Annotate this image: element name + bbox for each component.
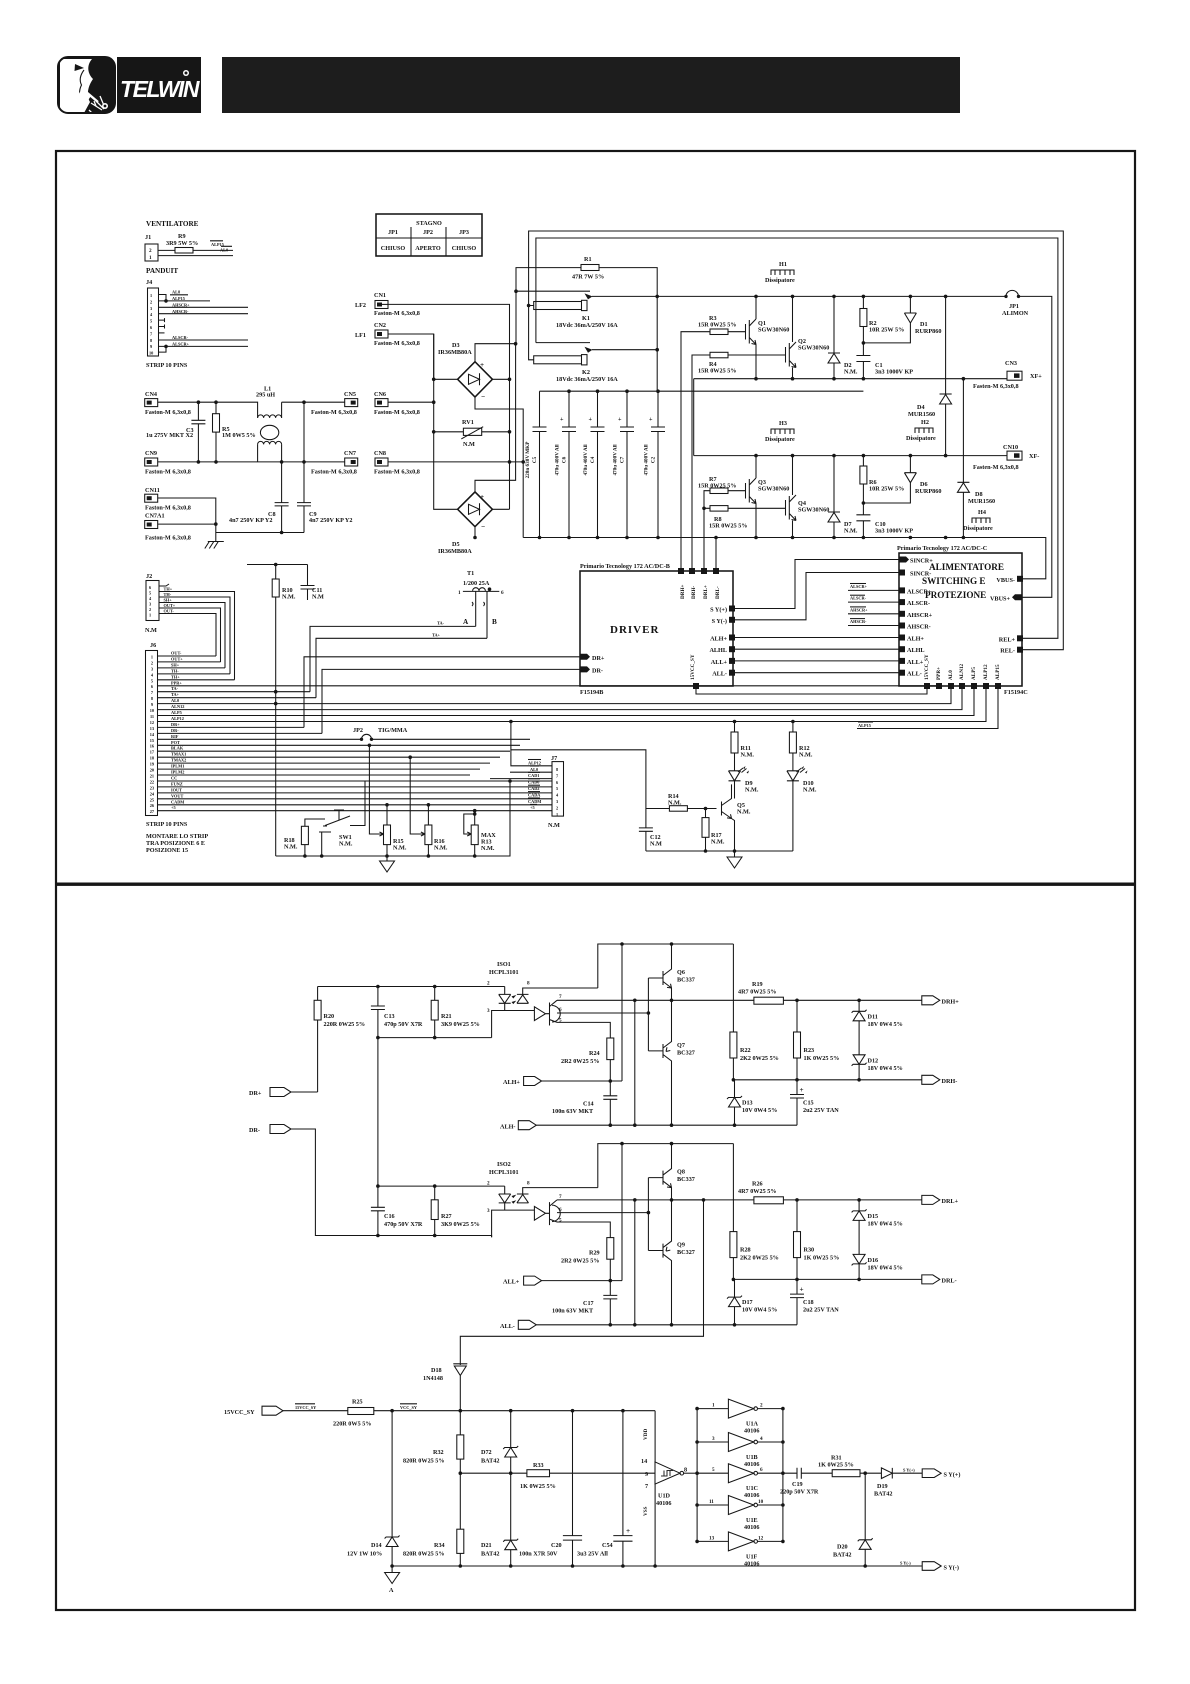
svg-text:D17: D17 <box>742 1299 753 1306</box>
section divider <box>56 883 1135 886</box>
svg-text:1: 1 <box>150 293 152 298</box>
wire J4 pin9 ALSCR+ <box>159 345 249 347</box>
svg-text:PPR+: PPR+ <box>936 667 942 680</box>
wire R4 gate riser DRH- <box>692 355 786 571</box>
jumper JP2 <box>353 727 408 741</box>
svg-text:47R 7W 5%: 47R 7W 5% <box>572 274 604 281</box>
ground triangle under Q5 <box>727 851 742 868</box>
svg-text:10: 10 <box>758 1499 764 1505</box>
svg-text:7: 7 <box>645 1483 648 1490</box>
svg-text:13: 13 <box>709 1535 715 1541</box>
resistor R4 <box>710 352 728 358</box>
wire D3 right arm <box>492 379 509 509</box>
svg-text:STAGNO: STAGNO <box>416 220 442 227</box>
svg-text:TA-: TA- <box>171 686 179 691</box>
resistor R11 <box>731 722 754 771</box>
svg-text:15VCC_SY: 15VCC_SY <box>690 654 696 680</box>
svg-text:CN6: CN6 <box>374 391 386 398</box>
svg-text:6: 6 <box>501 590 504 596</box>
svg-text:ALHL: ALHL <box>709 647 727 654</box>
svg-text:ALP15: ALP15 <box>995 664 1001 680</box>
capacitor C5 <box>525 391 547 537</box>
wire pin7 drop to ALL- <box>634 1200 636 1325</box>
svg-text:5: 5 <box>712 1467 715 1473</box>
input flag ALL- <box>500 1320 797 1330</box>
input flag ALL+ <box>503 1276 622 1285</box>
svg-text:CHIUSO: CHIUSO <box>381 245 406 252</box>
J6 pin 23 FUNZ <box>158 786 553 788</box>
svg-text:8: 8 <box>527 981 530 987</box>
resistor R30 <box>794 1200 840 1280</box>
bridge rectifier D5 <box>438 492 492 555</box>
svg-text:+: + <box>626 1527 630 1535</box>
svg-text:N.M.: N.M. <box>434 845 448 852</box>
svg-text:DRH+: DRH+ <box>942 999 960 1006</box>
zener D14 <box>347 1411 400 1566</box>
svg-text:ALSCR-: ALSCR- <box>850 596 867 601</box>
svg-text:R28: R28 <box>740 1247 751 1254</box>
svg-text:D4: D4 <box>917 404 925 411</box>
svg-text:5: 5 <box>150 319 152 324</box>
wire D3 left vertical <box>434 334 458 509</box>
svg-text:1K 0W25 5%: 1K 0W25 5% <box>804 1055 840 1062</box>
svg-text:1: 1 <box>458 590 461 596</box>
capacitor C17 <box>552 1281 617 1325</box>
svg-text:15VCC_SY: 15VCC_SY <box>295 1405 317 1410</box>
svg-text:Faston-M 6,3x0,8: Faston-M 6,3x0,8 <box>374 409 420 416</box>
capacitor C54 <box>577 1411 633 1566</box>
svg-text:10R 25W 5%: 10R 25W 5% <box>869 486 904 493</box>
logo telwin icon <box>58 57 115 117</box>
resistor R17 <box>702 809 725 852</box>
svg-text:SGW30N60: SGW30N60 <box>758 486 789 493</box>
svg-text:U1E: U1E <box>746 1517 758 1524</box>
wire loop outer (REL-) <box>529 231 1064 650</box>
lower bus (lower bridge collector / CN10) <box>694 455 1007 457</box>
diode D18 <box>423 1364 467 1411</box>
svg-text:R30: R30 <box>804 1247 815 1254</box>
resistor R19 <box>673 981 922 1004</box>
svg-text:BC337: BC337 <box>677 977 695 984</box>
svg-text:ALP5: ALP5 <box>171 710 182 715</box>
svg-text:8: 8 <box>527 1181 530 1187</box>
svg-text:BAT42: BAT42 <box>481 1458 499 1465</box>
svg-text:BC337: BC337 <box>677 1176 695 1183</box>
svg-text:N.M.: N.M. <box>481 845 495 852</box>
svg-text:4R7 0W25 5%: 4R7 0W25 5% <box>738 989 777 996</box>
svg-text:ALL+: ALL+ <box>907 659 924 666</box>
wire D3 bottom to rail <box>475 397 523 538</box>
svg-text:C19: C19 <box>792 1481 803 1488</box>
capacitor C12 <box>639 809 662 852</box>
resistor R12 <box>789 722 812 771</box>
svg-text:CN7: CN7 <box>344 450 356 457</box>
svg-text:3K9 0W25 5%: 3K9 0W25 5% <box>441 1221 480 1228</box>
svg-text:+: + <box>800 1086 804 1094</box>
diode D1 <box>862 296 942 344</box>
wire ALP15 stub to alim <box>857 689 998 729</box>
svg-text:SH+: SH+ <box>164 597 173 602</box>
zener D15 <box>852 1200 903 1255</box>
wire J4 pin4 AHSCR- <box>159 313 249 315</box>
wire SY- to SINCR- <box>735 573 899 620</box>
wire base bus Q8 Q9 <box>648 1178 663 1251</box>
wire ALP12 to R14 node <box>511 750 646 809</box>
wire R22 top riser <box>732 944 734 1032</box>
resistor R2 <box>860 296 904 343</box>
svg-text:DR+: DR+ <box>592 655 605 662</box>
svg-text:2u2 25V TAN: 2u2 25V TAN <box>803 1107 839 1114</box>
diode D4 <box>908 296 952 455</box>
J6 pin 17 BLAK <box>158 750 511 752</box>
driver top pins DRH+ DRH- DRL+ DRL- <box>678 568 721 599</box>
svg-text:Dissipatore: Dissipatore <box>963 525 993 532</box>
capacitor C13 <box>371 985 423 1038</box>
wire gate riser DRL- <box>715 538 717 572</box>
inverter bank input bus <box>696 1409 698 1542</box>
svg-text:3u3 25V All: 3u3 25V All <box>577 1551 608 1558</box>
svg-text:8: 8 <box>150 338 152 343</box>
svg-text:820R 0W25 5%: 820R 0W25 5% <box>403 1458 445 1465</box>
svg-text:STRIP 10 PINS: STRIP 10 PINS <box>146 821 188 828</box>
diode D8 <box>957 379 995 538</box>
svg-text:AL0: AL0 <box>530 767 538 772</box>
svg-text:MONTARE LO STRIP: MONTARE LO STRIP <box>146 833 208 840</box>
svg-text:2R2 0W25 5%: 2R2 0W25 5% <box>561 1058 600 1065</box>
bridge rectifier D3 <box>438 342 492 401</box>
svg-text:C14: C14 <box>583 1101 594 1108</box>
resistor R31 <box>818 1455 881 1477</box>
svg-text:C54: C54 <box>602 1542 613 1549</box>
svg-text:CN8: CN8 <box>374 450 386 457</box>
transistor Q8 <box>663 1144 695 1200</box>
jumper JP1 <box>1002 290 1029 317</box>
wire SW1 lever ground link <box>321 832 323 856</box>
svg-text:1: 1 <box>149 255 152 261</box>
svg-text:J1: J1 <box>145 234 151 241</box>
wire J2 OUT- <box>159 614 216 657</box>
svg-text:R21: R21 <box>441 1013 452 1020</box>
J6 pin 13 DR+ <box>158 726 305 728</box>
svg-text:12: 12 <box>758 1535 764 1541</box>
svg-text:JP2: JP2 <box>353 727 363 734</box>
svg-text:ALH+: ALH+ <box>503 1079 520 1086</box>
capacitor C2 <box>644 391 666 537</box>
wire C13-R21 bottom to ISO1 pin3 <box>378 1038 492 1187</box>
svg-text:VBUS+: VBUS+ <box>990 595 1011 602</box>
svg-text:IOUT: IOUT <box>171 787 182 792</box>
svg-text:D16: D16 <box>868 1257 879 1264</box>
J6 pin 24 IOUT <box>158 792 553 794</box>
zener D11 <box>852 1000 903 1055</box>
capacitor C3 <box>191 402 205 462</box>
wire D5 bottom to rail <box>474 527 476 538</box>
sheet frame <box>56 151 1135 1610</box>
ground A <box>385 1566 400 1594</box>
svg-text:TRA POSIZIONE 6 E: TRA POSIZIONE 6 E <box>146 840 205 847</box>
svg-text:+5: +5 <box>171 805 176 810</box>
wire ALL- link <box>735 672 899 674</box>
J6 pin 12 ALP12 long <box>158 689 987 722</box>
svg-text:3: 3 <box>149 602 151 607</box>
svg-text:IR36MB80A: IR36MB80A <box>438 548 472 555</box>
wire AHSCR- stub <box>848 625 899 627</box>
svg-text:−: − <box>481 523 485 531</box>
svg-text:S Y(-): S Y(-) <box>900 1561 911 1566</box>
svg-text:N.M: N.M <box>650 841 662 848</box>
J6 pin 8 TA+ <box>158 697 317 699</box>
output flag DRH- <box>922 1075 958 1085</box>
svg-text:2: 2 <box>150 299 152 304</box>
svg-text:PROTEZIONE: PROTEZIONE <box>925 590 986 600</box>
svg-text:13: 13 <box>150 726 154 731</box>
svg-text:10R 25W 5%: 10R 25W 5% <box>869 327 904 334</box>
svg-text:220p 50V X7R: 220p 50V X7R <box>780 1489 819 1496</box>
svg-text:J6: J6 <box>150 642 156 649</box>
capacitor C6 <box>555 391 577 537</box>
svg-text:220n 630V MKP: 220n 630V MKP <box>525 441 531 479</box>
svg-text:4R7 0W25 5%: 4R7 0W25 5% <box>738 1188 777 1195</box>
svg-text:ALSCR+: ALSCR+ <box>172 342 190 347</box>
svg-text:Fasten-M 6,3x0,8: Fasten-M 6,3x0,8 <box>973 464 1019 471</box>
svg-text:−: − <box>481 393 485 401</box>
wire J2 SH+ <box>159 603 225 668</box>
svg-text:1: 1 <box>149 613 151 618</box>
svg-text:MUR1560: MUR1560 <box>908 411 935 418</box>
resistor R32 <box>403 1411 464 1474</box>
svg-text:CN5: CN5 <box>344 391 356 398</box>
svg-text:JP1: JP1 <box>388 229 398 236</box>
J6 pin 6 PPR+ long <box>158 686 940 689</box>
svg-text:S Y(+): S Y(+) <box>710 607 727 614</box>
svg-text:SINCR-: SINCR- <box>910 571 931 578</box>
diode D19 <box>874 1468 905 1498</box>
wire J4 pin8 ALSCR- <box>159 339 249 341</box>
transistor Q5 <box>722 784 751 851</box>
svg-text:820R 0W25 5%: 820R 0W25 5% <box>403 1551 445 1558</box>
svg-text:VDD: VDD <box>643 1429 649 1440</box>
svg-text:CADM: CADM <box>171 799 184 804</box>
svg-text:ALL-: ALL- <box>712 671 727 678</box>
svg-text:3: 3 <box>712 1436 715 1442</box>
wire Q5 bottom line <box>646 850 793 852</box>
svg-text:1K 0W25 5%: 1K 0W25 5% <box>818 1462 854 1469</box>
svg-text:DRH-: DRH- <box>691 585 697 599</box>
resistor R22 <box>730 1032 779 1080</box>
svg-text:R26: R26 <box>752 1181 763 1188</box>
svg-text:H1: H1 <box>779 261 787 268</box>
transistor Q7 <box>663 1000 695 1125</box>
svg-text:N.M: N.M <box>312 594 324 601</box>
svg-text:AL8: AL8 <box>172 290 180 295</box>
alim bottom pins <box>924 654 1001 689</box>
svg-text:VSS: VSS <box>643 1506 649 1516</box>
wire J2 pin6 stub <box>159 584 169 586</box>
svg-text:ALIMON: ALIMON <box>1002 310 1029 317</box>
svg-text:STRIP 10 PINS: STRIP 10 PINS <box>146 362 188 369</box>
svg-text:N.M.: N.M. <box>393 845 407 852</box>
wire J7 CAD1 stub <box>490 778 552 780</box>
resistor R21 <box>431 985 480 1038</box>
transistor Q6 <box>663 944 695 1000</box>
alim right pins <box>990 576 1023 655</box>
svg-text:3n3 1000V KP: 3n3 1000V KP <box>875 528 913 535</box>
svg-text:TMAX2: TMAX2 <box>171 758 186 763</box>
output flag DRL+ <box>922 1195 959 1205</box>
bottom rail (VBUS-) <box>523 538 1046 579</box>
wire ISO1 pin7 emitter node <box>557 999 673 1001</box>
svg-text:2: 2 <box>487 1181 490 1187</box>
relay contact K1 <box>514 289 618 329</box>
svg-text:SH+: SH+ <box>171 662 180 667</box>
J6 pin wires 1-5 up to J2 <box>158 656 235 680</box>
wire R7 gate riser DRL+ <box>704 491 746 571</box>
svg-text:DR-: DR- <box>592 668 603 675</box>
svg-text:IPLM2: IPLM2 <box>171 770 184 775</box>
svg-text:3: 3 <box>487 1208 490 1214</box>
svg-text:ALP5: ALP5 <box>971 667 977 680</box>
svg-text:3: 3 <box>487 1008 490 1014</box>
svg-text:Primario Tecnology 172 AC/DC-B: Primario Tecnology 172 AC/DC-B <box>580 563 670 570</box>
svg-text:AL0: AL0 <box>220 248 228 253</box>
svg-text:TH-: TH- <box>164 592 172 597</box>
table STAGNO <box>376 214 482 256</box>
svg-text:Faston-M 6,3x0,8: Faston-M 6,3x0,8 <box>145 505 191 512</box>
svg-text:TH+: TH+ <box>164 586 173 591</box>
svg-text:R33: R33 <box>533 1462 544 1469</box>
svg-text:U1C: U1C <box>746 1485 758 1492</box>
svg-text:ALHL: ALHL <box>907 647 925 654</box>
svg-text:Dissipatore: Dissipatore <box>906 435 936 442</box>
svg-text:220R 0W25 5%: 220R 0W25 5% <box>324 1021 366 1028</box>
heatsink H3 <box>765 420 795 443</box>
svg-text:BC327: BC327 <box>677 1050 695 1057</box>
svg-text:R27: R27 <box>441 1213 452 1220</box>
capacitor C14 <box>552 1081 617 1125</box>
svg-text:SINCR+: SINCR+ <box>910 558 933 565</box>
svg-text:ALH+: ALH+ <box>907 636 924 643</box>
svg-text:+5: +5 <box>530 805 535 810</box>
svg-text:R20: R20 <box>324 1013 335 1020</box>
J6 pin 9 AL0 long <box>158 689 952 704</box>
svg-text:6: 6 <box>760 1467 763 1473</box>
svg-text:3: 3 <box>151 666 153 671</box>
svg-text:470u 400V All: 470u 400V All <box>555 444 561 476</box>
svg-text:1K 0W25 5%: 1K 0W25 5% <box>520 1483 556 1490</box>
svg-text:N.M.: N.M. <box>741 752 755 759</box>
svg-text:ALH-: ALH- <box>500 1124 515 1131</box>
svg-text:9: 9 <box>150 344 152 349</box>
svg-text:AHSCR-: AHSCR- <box>850 619 867 624</box>
heatsink H1 <box>765 261 795 284</box>
svg-text:H4: H4 <box>978 509 986 516</box>
svg-text:D21: D21 <box>481 1542 492 1549</box>
wire TA+ <box>316 638 487 697</box>
inverter bank output bus <box>782 1409 784 1542</box>
svg-text:D15: D15 <box>868 1213 879 1220</box>
svg-text:D18: D18 <box>431 1367 442 1374</box>
varistor RV1 <box>434 419 510 448</box>
wire mid-to-lower link <box>693 379 695 456</box>
svg-text:R32: R32 <box>433 1449 444 1456</box>
svg-text:ALN12: ALN12 <box>171 704 184 709</box>
svg-text:XF+: XF+ <box>1030 373 1042 380</box>
svg-text:18V 0W4 5%: 18V 0W4 5% <box>868 1065 903 1072</box>
transistor Q9 <box>663 1200 695 1325</box>
svg-text:ALP12: ALP12 <box>171 716 184 721</box>
wire R33 input node <box>460 1472 655 1474</box>
connector CN10 <box>973 444 1039 471</box>
ground triangle under rail <box>380 856 395 872</box>
svg-text:5: 5 <box>559 1218 562 1224</box>
svg-text:Q7: Q7 <box>677 1042 685 1049</box>
svg-text:PANDUIT: PANDUIT <box>146 267 178 275</box>
resistor R27 <box>431 1184 480 1237</box>
output flag DRH+ <box>922 996 959 1006</box>
svg-text:20: 20 <box>150 768 154 773</box>
wire ALH+ link <box>735 637 899 639</box>
svg-text:2: 2 <box>149 607 151 612</box>
svg-text:ISO1: ISO1 <box>497 961 511 968</box>
svg-text:N.M.: N.M. <box>737 809 751 816</box>
svg-text:470u 400V All: 470u 400V All <box>644 444 650 476</box>
svg-text:1M 0W5 5%: 1M 0W5 5% <box>222 432 256 439</box>
svg-text:10V 0W4 5%: 10V 0W4 5% <box>742 1107 777 1114</box>
svg-text:D72: D72 <box>481 1449 492 1456</box>
svg-text:DRH+: DRH+ <box>680 584 686 599</box>
svg-text:T1: T1 <box>467 570 474 577</box>
resistor R8 <box>710 506 728 512</box>
svg-text:100n X7R 50V: 100n X7R 50V <box>519 1551 558 1558</box>
resistor R33 <box>520 1462 556 1490</box>
svg-text:N.M.: N.M. <box>844 528 858 535</box>
svg-text:CN1: CN1 <box>374 292 386 299</box>
svg-text:REL-: REL- <box>1000 648 1015 655</box>
svg-text:Dissipatore: Dissipatore <box>765 436 795 443</box>
svg-text:Faston-M 6,3x0,8: Faston-M 6,3x0,8 <box>374 340 420 347</box>
svg-text:ALP15: ALP15 <box>858 723 871 728</box>
svg-text:APERTO: APERTO <box>415 245 441 252</box>
J6 pin 11 ALP5 long <box>158 689 975 716</box>
resistor R18 <box>284 819 325 856</box>
svg-text:CAD2: CAD2 <box>528 786 539 791</box>
svg-text:D14: D14 <box>371 1542 382 1549</box>
wire U1D out to input bus <box>684 1472 698 1474</box>
svg-text:Faston-M 6,3x0,8: Faston-M 6,3x0,8 <box>311 469 357 476</box>
diode D2 <box>828 296 858 378</box>
svg-text:AHSCR+: AHSCR+ <box>172 302 190 307</box>
wire base bus Q6 Q7 <box>648 978 663 1051</box>
input flag DR+ <box>249 1088 318 1098</box>
svg-text:12: 12 <box>150 720 154 725</box>
J6 pin 15 RIF <box>158 738 531 740</box>
svg-text:TMAX1: TMAX1 <box>171 752 186 757</box>
svg-text:2: 2 <box>556 805 558 810</box>
logo telwin wordmark <box>117 57 201 113</box>
svg-text:D19: D19 <box>877 1483 888 1490</box>
svg-text:DRL-: DRL- <box>715 586 721 599</box>
svg-text:C20: C20 <box>551 1542 562 1549</box>
inverter U1F <box>697 1532 783 1568</box>
wire ALL+ rail riser <box>621 1144 623 1281</box>
svg-text:Faston-M 6,3x0,8: Faston-M 6,3x0,8 <box>374 469 420 476</box>
capacitor C11 <box>301 565 325 601</box>
svg-text:Fasten-M 6,3x0,8: Fasten-M 6,3x0,8 <box>973 383 1019 390</box>
svg-text:2R2 0W25 5%: 2R2 0W25 5% <box>561 1258 600 1265</box>
svg-text:+: + <box>480 493 484 501</box>
svg-text:10: 10 <box>149 351 153 356</box>
svg-text:D11: D11 <box>868 1014 878 1021</box>
